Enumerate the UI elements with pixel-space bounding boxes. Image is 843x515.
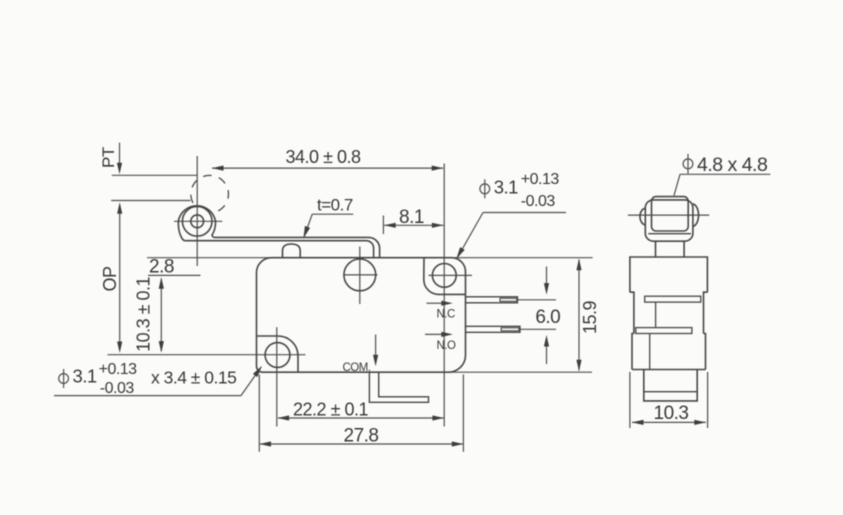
svg-text:+0.13: +0.13 <box>521 171 560 188</box>
svg-text:t=0.7: t=0.7 <box>317 196 353 215</box>
svg-text:PT: PT <box>99 147 118 168</box>
svg-text:3.1: 3.1 <box>494 176 518 197</box>
svg-text:15.9: 15.9 <box>580 300 600 334</box>
svg-text:10.3: 10.3 <box>654 403 689 424</box>
svg-text:27.8: 27.8 <box>344 426 379 447</box>
svg-text:OP: OP <box>100 266 120 292</box>
svg-text:4.8 x 4.8: 4.8 x 4.8 <box>697 154 767 176</box>
svg-text:22.2 ± 0.1: 22.2 ± 0.1 <box>293 400 368 420</box>
svg-text:x 3.4 ± 0.15: x 3.4 ± 0.15 <box>151 368 236 388</box>
svg-text:6.0: 6.0 <box>535 307 560 328</box>
svg-text:N.O: N.O <box>437 340 457 352</box>
svg-text:10.3 ± 0.1: 10.3 ± 0.1 <box>134 276 154 351</box>
svg-text:N.C: N.C <box>437 309 456 321</box>
svg-text:2.8: 2.8 <box>149 257 174 278</box>
svg-text:-0.03: -0.03 <box>100 380 135 397</box>
svg-text:-0.03: -0.03 <box>521 193 556 210</box>
svg-text:3.1: 3.1 <box>73 366 97 387</box>
svg-text:8.1: 8.1 <box>399 207 424 228</box>
svg-text:34.0 ± 0.8: 34.0 ± 0.8 <box>286 147 361 167</box>
svg-text:COM.: COM. <box>343 362 371 374</box>
svg-text:+0.13: +0.13 <box>99 361 138 378</box>
